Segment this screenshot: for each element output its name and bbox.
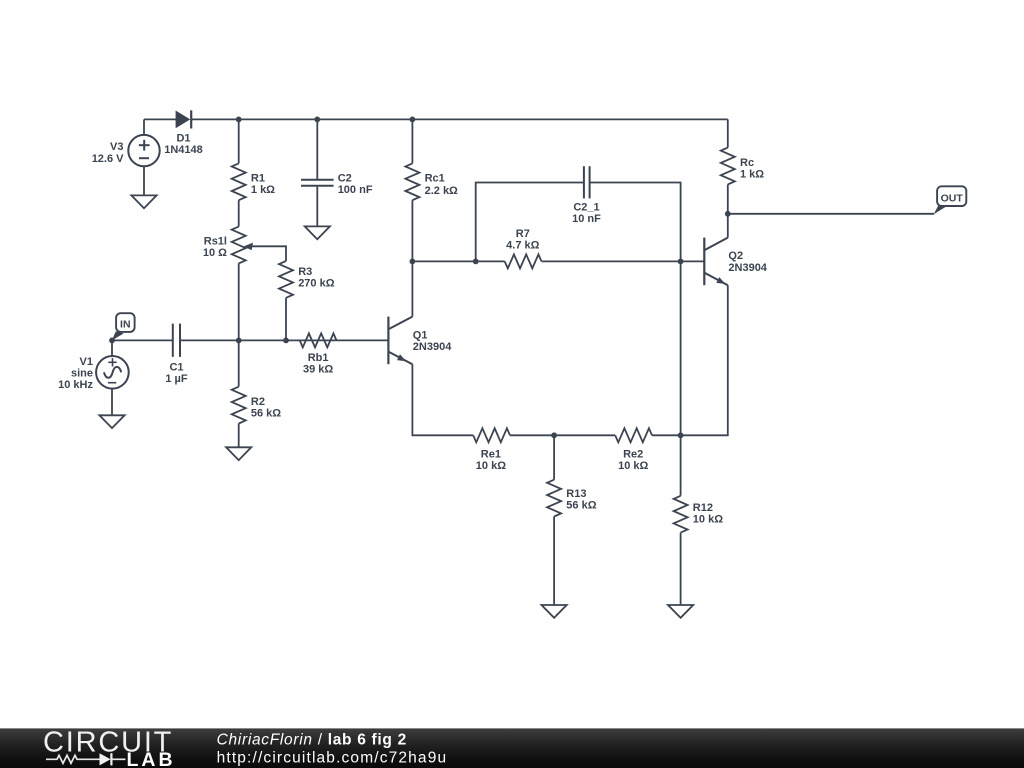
voltage source V1 (96, 356, 129, 389)
svg-text:2N3904: 2N3904 (413, 341, 452, 353)
wire R1 top stub (238, 119, 240, 163)
node R12 top (678, 432, 684, 438)
resistor R3 (279, 261, 293, 298)
label R7 name (516, 228, 530, 240)
label D1 name (176, 133, 190, 145)
transistor Q1 (388, 317, 412, 365)
svg-text:D1: D1 (176, 133, 190, 145)
wire C2_1 right leg (590, 183, 681, 262)
capacitor C1 (173, 324, 180, 357)
wire C2 top stub (316, 119, 318, 179)
wire Rc1 top stub (411, 119, 413, 163)
svg-text:LAB: LAB (127, 749, 176, 768)
flag OUT (934, 186, 967, 214)
wire R2 to ground (238, 424, 240, 448)
svg-text:R3: R3 (298, 266, 312, 278)
svg-text:V1: V1 (80, 356, 93, 368)
svg-text:C2: C2 (338, 173, 352, 185)
label Rc1 name (425, 173, 445, 185)
svg-text:10 kΩ: 10 kΩ (618, 460, 648, 472)
resistor R2 (232, 387, 246, 424)
wire Re1 to R13 node to Re2 (510, 434, 615, 436)
label Re1 value (476, 460, 506, 472)
resistor Re2 (615, 428, 652, 442)
svg-text:Re2: Re2 (623, 448, 643, 460)
svg-text:sine: sine (71, 367, 93, 379)
voltage source V3 (128, 135, 159, 166)
label C2_1 name (573, 201, 599, 213)
node R1 top (236, 117, 242, 123)
resistor R13 (547, 480, 561, 517)
svg-text:10 kΩ: 10 kΩ (693, 514, 723, 526)
node C2 top (314, 117, 320, 123)
wire Rc1 bottom to R7 node (411, 200, 413, 261)
flag IN (112, 313, 135, 340)
svg-text:R12: R12 (693, 502, 713, 514)
svg-text:4.7 kΩ: 4.7 kΩ (506, 239, 539, 251)
svg-text:10 Ω: 10 Ω (203, 247, 227, 259)
svg-text:R13: R13 (566, 488, 586, 500)
resistor R12 (674, 496, 688, 533)
wire C2_1 right leg down to Re2 node (680, 261, 682, 435)
footer title line (217, 731, 407, 748)
label R12 value (693, 514, 723, 526)
svg-text:V3: V3 (110, 141, 123, 153)
wire R13 bottom to ground (553, 517, 555, 606)
wire V1 top stub (111, 340, 113, 356)
label C2 value (338, 184, 373, 196)
svg-text:270 kΩ: 270 kΩ (298, 278, 335, 290)
label Re2 name (623, 448, 643, 460)
ground under R2 (226, 447, 251, 460)
capacitor C2_1 (584, 166, 590, 198)
label Re1 name (481, 448, 501, 460)
svg-text:Rc1: Rc1 (425, 173, 445, 185)
wire Q1 emitter vertical (412, 364, 473, 435)
svg-text:39 kΩ: 39 kΩ (303, 363, 333, 375)
wire C2 bottom stub (316, 187, 318, 227)
ground under R12 (668, 605, 693, 618)
resistor R7 (505, 254, 542, 268)
wire R1 to Rs1l (238, 200, 240, 226)
label V3 value (92, 153, 124, 165)
node Rc1 top (410, 117, 416, 123)
label R7 value (506, 239, 539, 251)
ground under V3 (131, 195, 156, 208)
label R13 name (566, 488, 586, 500)
svg-text:Rc: Rc (740, 157, 754, 169)
wire R3 bottom to base node (285, 298, 287, 341)
ground under R13 (542, 605, 567, 618)
label R3 value (298, 278, 335, 290)
node IN (109, 338, 115, 344)
wire Rc top stub (727, 119, 729, 147)
wire Rs1l to base node (238, 263, 240, 340)
label C2_1 value (572, 213, 601, 225)
svg-text:C2_1: C2_1 (573, 201, 599, 213)
svg-text:10 kHz: 10 kHz (58, 379, 93, 391)
node R7 left (410, 259, 416, 265)
svg-text:56 kΩ: 56 kΩ (251, 408, 281, 420)
wire R7 node to R7 left (412, 260, 504, 262)
wire IN node to C1 (112, 339, 173, 341)
wire V3 bottom stub (143, 166, 145, 195)
resistor Rb1 (300, 333, 337, 347)
svg-text:12.6 V: 12.6 V (92, 153, 124, 165)
label D1 value (164, 144, 203, 156)
potentiometer Rs1l (232, 227, 253, 264)
svg-text:ChiriacFlorin / lab 6 fig 2: ChiriacFlorin / lab 6 fig 2 (217, 731, 407, 748)
label R2 name (251, 396, 265, 408)
footer url line (217, 750, 448, 767)
svg-text:2.2 kΩ: 2.2 kΩ (425, 185, 458, 197)
node C2_1 left (473, 259, 479, 265)
wire R3 wiper link (252, 246, 286, 261)
wire base node to R2 (238, 340, 240, 386)
label Rc1 value (425, 185, 458, 197)
svg-text:http://circuitlab.com/c72ha9u: http://circuitlab.com/c72ha9u (217, 750, 448, 767)
svg-text:R7: R7 (516, 228, 530, 240)
svg-text:Rs1l: Rs1l (204, 236, 227, 248)
svg-text:10 kΩ: 10 kΩ (476, 460, 506, 472)
svg-text:1N4148: 1N4148 (164, 144, 203, 156)
svg-text:1 kΩ: 1 kΩ (251, 184, 275, 196)
logo diode symbol (100, 753, 126, 765)
label Rs1l value (203, 247, 227, 259)
node C1 R2 (236, 338, 242, 344)
label Rc name (740, 157, 754, 169)
label V1 name (80, 356, 93, 368)
resistor Re1 (473, 428, 510, 442)
resistor R1 (232, 163, 246, 200)
label R1 value (251, 184, 275, 196)
svg-text:C1: C1 (169, 361, 183, 373)
label Q1 value (413, 341, 452, 353)
wire Rc bottom to OUT node (727, 184, 729, 213)
node OUT (725, 211, 731, 217)
CircuitLab logo word CIRCUIT (43, 727, 173, 759)
label Rc value (740, 169, 764, 181)
label Rb1 value (303, 363, 333, 375)
logo resistor symbol (46, 755, 100, 763)
node C2_1 right (678, 259, 684, 265)
label C1 name (169, 361, 183, 373)
transistor Q2 (704, 238, 728, 286)
resistor Rc1 (405, 163, 419, 200)
node R13 top (551, 432, 557, 438)
wire Re2 to Q2 emitter corner (652, 285, 728, 435)
label V1 value (58, 379, 93, 391)
label Q1 name (413, 330, 428, 342)
svg-text:R2: R2 (251, 396, 265, 408)
label Re2 value (618, 460, 648, 472)
ground under C2 (305, 226, 330, 239)
wire OUT node to flag (728, 213, 934, 215)
wire top rail (D1 cathode to Rc column) (191, 118, 728, 120)
CircuitLab logo word LAB (127, 749, 176, 768)
wire R13 top stub (553, 435, 555, 479)
svg-text:IN: IN (120, 319, 131, 331)
svg-text:Rb1: Rb1 (308, 352, 329, 364)
svg-text:100 nF: 100 nF (338, 184, 373, 196)
svg-text:Re1: Re1 (481, 448, 501, 460)
wire Q2 collector vertical (727, 214, 729, 238)
label Q2 name (728, 250, 743, 262)
wire C1 to Q1 base (180, 339, 388, 341)
svg-text:R1: R1 (251, 173, 265, 185)
svg-text:1 kΩ: 1 kΩ (740, 169, 764, 181)
label C1 value (165, 373, 188, 385)
svg-text:Q1: Q1 (413, 330, 428, 342)
wire R12 bottom to ground (680, 533, 682, 605)
wire R12 top stub (680, 435, 682, 496)
svg-text:1 µF: 1 µF (165, 373, 188, 385)
resistor Rc (721, 148, 735, 185)
svg-text:10 nF: 10 nF (572, 213, 601, 225)
node R3 Rb1 (283, 338, 289, 344)
label R13 value (566, 500, 596, 512)
wire Q1 collector vertical (411, 261, 413, 316)
svg-text:2N3904: 2N3904 (728, 262, 767, 274)
label R12 name (693, 502, 713, 514)
svg-text:OUT: OUT (941, 192, 964, 204)
capacitor C2 (301, 180, 334, 186)
label R2 value (251, 408, 281, 420)
label Rs1l name (204, 236, 227, 248)
label R3 name (298, 266, 312, 278)
wire C2_1 left leg (476, 183, 584, 262)
diode D1 (176, 110, 192, 128)
ground under V1 (99, 415, 124, 428)
wire R7 right to Q2 base (542, 260, 705, 262)
label C2 name (338, 173, 352, 185)
wire V1 bottom stub (111, 389, 113, 416)
wire top rail left (V3 to D1 anode) (144, 118, 176, 120)
label R1 name (251, 173, 265, 185)
label V3 name (110, 141, 123, 153)
label Rb1 name (308, 352, 329, 364)
wire V3 top stub (143, 119, 145, 135)
label V1 type (71, 367, 93, 379)
svg-text:56 kΩ: 56 kΩ (566, 500, 596, 512)
svg-text:Q2: Q2 (728, 250, 743, 262)
label Q2 value (728, 262, 767, 274)
